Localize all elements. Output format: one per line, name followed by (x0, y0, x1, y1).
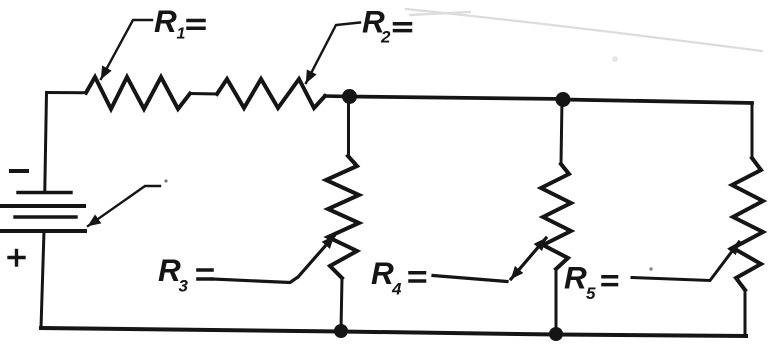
leader arrow to battery (88, 186, 160, 226)
battery plus sign (9, 251, 24, 266)
battery B1 (0, 193, 85, 232)
leader arrow to R5 (632, 242, 739, 281)
wire between R1 and R2 (190, 92, 217, 96)
wire node A down to R3 (347, 97, 350, 156)
svg-text:R: R (564, 259, 587, 295)
wire node A to node B (350, 97, 564, 100)
resistor R1 (86, 77, 190, 109)
wire R2 to node A (325, 94, 349, 98)
svg-text:R: R (371, 255, 394, 291)
svg-text:1: 1 (177, 26, 186, 43)
resistor R3 (326, 156, 359, 278)
wire node B down to R4 (561, 100, 562, 164)
battery minus sign (11, 169, 27, 173)
wire right vertical upper (751, 103, 754, 158)
node B junction dot (556, 92, 571, 107)
wire R3 to node C (341, 278, 342, 330)
svg-text:2: 2 (380, 28, 391, 47)
label R5 (564, 259, 617, 303)
node A junction dot (342, 89, 357, 104)
resistor R5 (732, 158, 763, 290)
resistor R2 (217, 79, 325, 108)
svg-text:3: 3 (179, 277, 189, 296)
label R2 (362, 4, 411, 47)
wire bottom (41, 328, 746, 336)
svg-text:4: 4 (391, 280, 402, 299)
node D junction dot (549, 327, 563, 341)
leader arrow to R3 (212, 236, 334, 283)
wire right vertical lower (744, 290, 747, 335)
leader arrow to R2 (306, 23, 360, 84)
leader arrow to R4 (433, 238, 546, 282)
wire R4 to node D (555, 269, 558, 333)
label R3 (158, 252, 212, 296)
wire node B to top right corner (563, 100, 752, 104)
svg-text:5: 5 (586, 284, 596, 303)
leader arrow to R1 (101, 20, 152, 79)
node C junction dot (334, 324, 348, 338)
label R4 (371, 255, 425, 299)
wire top left segment (47, 91, 87, 94)
wire left vertical lower (41, 231, 44, 328)
resistor R4 (541, 164, 571, 269)
wire left vertical upper (45, 93, 47, 191)
svg-text:R: R (154, 3, 177, 39)
label R1 (154, 3, 204, 43)
